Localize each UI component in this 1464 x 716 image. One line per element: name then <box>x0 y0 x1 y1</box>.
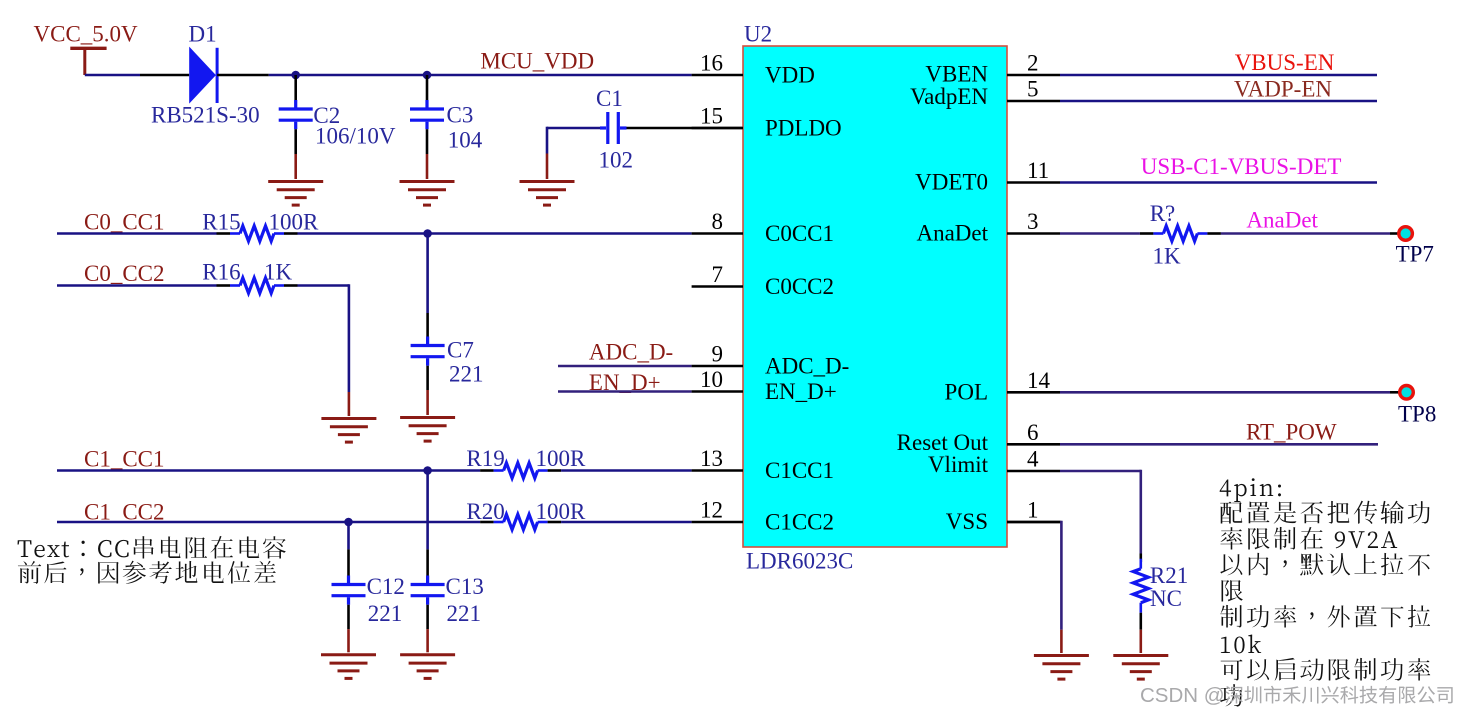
ground C7 <box>400 418 455 442</box>
svg-text:VCC_5.0V: VCC_5.0V <box>34 22 139 47</box>
svg-text:PDLDO: PDLDO <box>765 115 842 140</box>
designator U2 <box>744 22 772 47</box>
pin name AnaDet <box>916 220 988 245</box>
value 1K <box>264 260 293 285</box>
capacitor C7 <box>411 337 445 366</box>
capacitor C13 <box>411 576 445 605</box>
junction C7 tap <box>423 229 432 238</box>
pin name C1CC2 <box>765 509 834 534</box>
pin name C1CC1 <box>765 458 834 483</box>
svg-text:TP8: TP8 <box>1398 402 1436 427</box>
ground C1 <box>520 182 575 206</box>
svg-text:R?: R? <box>1150 201 1176 226</box>
pin 14 stub <box>1007 391 1060 394</box>
svg-text:VBEN: VBEN <box>925 61 988 86</box>
wire C7 to ground <box>426 366 429 415</box>
capacitor C3 <box>410 100 444 129</box>
wire R21 to ground <box>1140 613 1143 653</box>
wire VSS pin 1 to ground <box>1007 521 1061 653</box>
ground C13 <box>400 655 455 679</box>
svg-text:106/10V: 106/10V <box>315 124 396 149</box>
pin number 2 <box>1027 51 1039 76</box>
wire Vlimit pin 4 to R21 <box>1060 470 1141 562</box>
svg-text:R19: R19 <box>466 446 504 471</box>
resistor R21 <box>1133 559 1148 613</box>
pin number 5 <box>1027 77 1039 102</box>
ground R21 <box>1113 656 1168 680</box>
pin name Vlimit <box>928 452 989 477</box>
pin name PDLDO <box>765 115 842 140</box>
ground C12 <box>321 655 376 679</box>
svg-text:1: 1 <box>1027 498 1039 523</box>
ground VSS <box>1034 656 1089 680</box>
svg-text:221: 221 <box>449 362 484 387</box>
svg-text:R16: R16 <box>202 260 240 285</box>
pin 13 stub <box>692 469 743 472</box>
svg-text:100R: 100R <box>536 446 587 471</box>
svg-text:VSS: VSS <box>946 509 988 534</box>
value 100R <box>536 499 587 524</box>
net label VCC_5.0V <box>34 22 139 47</box>
wire C12 to ground <box>347 605 350 653</box>
pin number 16 <box>700 51 723 76</box>
svg-text:C1: C1 <box>596 86 623 111</box>
svg-text:TP7: TP7 <box>1396 242 1434 267</box>
svg-text:R20: R20 <box>466 499 504 524</box>
pin 11 stub <box>1007 181 1060 184</box>
svg-text:C1CC2: C1CC2 <box>765 509 834 534</box>
capacitor C2 <box>279 100 313 129</box>
svg-text:VBUS-EN: VBUS-EN <box>1235 50 1335 75</box>
svg-text:4: 4 <box>1027 447 1039 472</box>
wire C1 to ground corner <box>547 127 600 179</box>
wire POL pin 14 to TP8 <box>1060 391 1399 394</box>
svg-text:POL: POL <box>945 379 988 404</box>
pin 12 stub <box>692 521 743 524</box>
designator C12 <box>367 574 405 599</box>
value 221 <box>449 362 484 387</box>
pin number 6 <box>1027 420 1039 445</box>
wire junction to C7 <box>426 234 429 337</box>
svg-text:11: 11 <box>1027 158 1049 183</box>
net label RT_POW <box>1246 420 1337 445</box>
svg-text:221: 221 <box>368 601 403 626</box>
net label C1_CC2 <box>84 500 165 525</box>
value 106/10V <box>315 124 396 149</box>
value 221 <box>368 601 403 626</box>
wire rail to C2 <box>294 75 297 100</box>
pin number 14 <box>1027 368 1051 393</box>
power symbol VCC_5.0V <box>70 48 106 75</box>
svg-text:RB521S-30: RB521S-30 <box>151 103 260 128</box>
pin name ADC_D- <box>765 353 849 378</box>
svg-text:R21: R21 <box>1150 563 1188 588</box>
pin number 15 <box>700 104 723 129</box>
svg-text:VDET0: VDET0 <box>915 169 988 194</box>
pin name VDET0 <box>915 169 988 194</box>
label TP7 <box>1396 242 1434 267</box>
value 221 <box>447 601 482 626</box>
wire VBUS-EN net <box>1060 74 1377 77</box>
wire C0_CC2 <box>57 284 217 287</box>
capacitor C12 <box>332 576 366 605</box>
designator C7 <box>447 338 474 363</box>
junction C13 tap <box>423 466 432 475</box>
wire AnaDet pin 3 to R? <box>1060 232 1140 235</box>
svg-text:USB-C1-VBUS-DET: USB-C1-VBUS-DET <box>1141 154 1342 179</box>
svg-text:RT_POW: RT_POW <box>1246 420 1337 445</box>
pin name POL <box>945 379 988 404</box>
net label USB-C1-VBUS-DET <box>1141 154 1342 179</box>
designator R20 <box>466 499 504 524</box>
label TP8 <box>1398 402 1436 427</box>
svg-text:ADC_D-: ADC_D- <box>765 353 849 378</box>
value RB521S-30 <box>151 103 260 128</box>
svg-text:VADP-EN: VADP-EN <box>1234 77 1332 102</box>
wire rail to C3 <box>426 75 429 100</box>
value LDR6023C <box>746 549 853 574</box>
wire EN_D+ to pin 10 <box>558 390 692 393</box>
svg-text:EN_D+: EN_D+ <box>765 379 837 404</box>
svg-text:16: 16 <box>700 51 723 76</box>
svg-text:2: 2 <box>1027 51 1039 76</box>
pin number 7 <box>712 262 724 287</box>
pin 1 stub <box>1007 521 1060 524</box>
wire R? to TP7 <box>1221 232 1398 235</box>
ground R16 <box>321 419 376 443</box>
wire D1 cathode to MCU_VDD rail <box>217 74 691 77</box>
op-amp U2 LDR6023C body <box>743 46 1007 547</box>
pin 8 stub <box>692 232 743 235</box>
svg-text:13: 13 <box>700 446 723 471</box>
ground C2 <box>268 182 323 206</box>
svg-text:ADC_D-: ADC_D- <box>589 340 673 365</box>
wire ADC_D- to pin 9 <box>558 365 692 368</box>
pin 15 stub <box>692 127 743 130</box>
wire USB-C1-VBUS-DET net <box>1060 181 1377 184</box>
wire VADP-EN net <box>1060 100 1377 103</box>
svg-text:AnaDet: AnaDet <box>916 220 988 245</box>
value 100R <box>269 210 320 235</box>
svg-text:1K: 1K <box>264 260 293 285</box>
net label AnaDet <box>1246 208 1318 233</box>
pin 2 stub <box>1007 74 1060 77</box>
pin 4 stub <box>1007 470 1060 473</box>
svg-text:C0CC1: C0CC1 <box>765 221 834 246</box>
designator R16 <box>202 260 240 285</box>
resistor R15 <box>217 226 298 241</box>
pin number 11 <box>1027 158 1049 183</box>
resistor R20 <box>480 514 561 529</box>
pin 9 stub <box>692 365 743 368</box>
pin number 8 <box>712 209 724 234</box>
wire junction to C13 <box>426 471 429 576</box>
watermark CSDN <box>1140 680 1455 708</box>
svg-text:C0CC2: C0CC2 <box>765 274 834 299</box>
svg-text:VDD: VDD <box>765 62 815 87</box>
net label MCU_VDD <box>480 49 594 74</box>
wire C1_CC1 <box>57 469 480 472</box>
designator C13 <box>446 574 484 599</box>
designator R15 <box>202 210 240 235</box>
svg-text:100R: 100R <box>536 499 587 524</box>
wire C0_CC1 <box>57 232 217 235</box>
pin 6 stub <box>1007 443 1060 446</box>
net label VBUS-EN <box>1235 50 1335 75</box>
svg-text:AnaDet: AnaDet <box>1246 208 1318 233</box>
wire VCC to D1 anode <box>85 74 189 77</box>
net label EN_D+ <box>589 370 661 395</box>
pin 5 stub <box>1007 100 1060 103</box>
svg-text:5: 5 <box>1027 77 1039 102</box>
svg-text:1K: 1K <box>1153 244 1182 269</box>
pin name Reset Out <box>897 430 989 455</box>
svg-text:Vlimit: Vlimit <box>928 452 989 477</box>
test point TP8 <box>1400 386 1414 400</box>
svg-text:C7: C7 <box>447 338 474 363</box>
value 1K <box>1153 244 1182 269</box>
svg-text:12: 12 <box>700 498 723 523</box>
svg-text:102: 102 <box>599 148 634 173</box>
pin name C0CC1 <box>765 221 834 246</box>
designator C2 <box>313 103 340 128</box>
wire pin15 to C1 <box>627 127 744 130</box>
value 102 <box>599 148 634 173</box>
resistor R? <box>1140 226 1221 241</box>
diode D1 <box>189 47 217 104</box>
svg-text:100R: 100R <box>269 210 320 235</box>
net label VADP-EN <box>1234 77 1332 102</box>
designator D1 <box>189 22 217 47</box>
svg-text:3: 3 <box>1027 209 1039 234</box>
svg-text:6: 6 <box>1027 420 1039 445</box>
junction at C3 <box>423 71 432 80</box>
capacitor C1 <box>600 112 627 144</box>
designator C3 <box>447 103 474 128</box>
svg-text:14: 14 <box>1027 368 1051 393</box>
svg-text:VadpEN: VadpEN <box>910 84 988 109</box>
wire R20 to pin 12 <box>561 521 692 524</box>
note text CC resistor annotation <box>17 535 288 586</box>
pin 10 stub <box>692 390 743 393</box>
pin number 1 <box>1027 498 1039 523</box>
junction at C2 <box>291 71 300 80</box>
resistor R16 <box>217 278 298 293</box>
wire junction to C12 <box>347 522 350 576</box>
svg-text:7: 7 <box>712 262 724 287</box>
pin name VBEN <box>925 61 988 86</box>
svg-text:C1_CC1: C1_CC1 <box>84 447 165 472</box>
pin 7 stub <box>692 285 743 288</box>
net label ADC_D- <box>589 340 673 365</box>
svg-text:C12: C12 <box>367 574 405 599</box>
svg-text:C0_CC2: C0_CC2 <box>84 261 165 286</box>
test point TP7 <box>1399 227 1413 241</box>
pin name EN_D+ <box>765 379 837 404</box>
pin number 9 <box>712 342 724 367</box>
net label C1_CC1 <box>84 447 165 472</box>
value 104 <box>448 128 483 153</box>
note text 4pin annotation <box>1219 474 1433 709</box>
net label C0_CC1 <box>84 210 165 235</box>
designator C1 <box>596 86 623 111</box>
svg-text:221: 221 <box>447 601 482 626</box>
pin name VDD <box>765 62 815 87</box>
wire C2 to ground <box>294 129 297 179</box>
wire RT_POW pin 6 <box>1060 443 1378 446</box>
pin number 10 <box>700 367 723 392</box>
ground C3 <box>400 182 455 206</box>
svg-text:9: 9 <box>712 342 724 367</box>
pin 3 stub <box>1007 232 1060 235</box>
wire C13 to ground <box>426 605 429 653</box>
junction C12 tap <box>344 518 353 527</box>
pin name VSS <box>946 509 988 534</box>
wire R16 to ground corner <box>298 284 349 416</box>
pin name VadpEN <box>910 84 988 109</box>
wire R15 to pin 8 <box>298 232 692 235</box>
svg-text:15: 15 <box>700 104 723 129</box>
wire C1_CC2 <box>57 521 480 524</box>
svg-text:8: 8 <box>712 209 724 234</box>
designator R? <box>1150 201 1176 226</box>
value 100R <box>536 446 587 471</box>
pin number 13 <box>700 446 723 471</box>
svg-text:104: 104 <box>448 128 483 153</box>
svg-text:NC: NC <box>1150 586 1182 611</box>
designator R19 <box>466 446 504 471</box>
svg-text:D1: D1 <box>189 22 217 47</box>
svg-text:U2: U2 <box>744 22 772 47</box>
resistor R19 <box>480 463 561 478</box>
value NC <box>1150 586 1182 611</box>
pin number 4 <box>1027 447 1039 472</box>
net label C0_CC2 <box>84 261 165 286</box>
svg-text:C3: C3 <box>447 103 474 128</box>
designator R21 <box>1150 563 1188 588</box>
wire R19 to pin 13 <box>561 469 692 472</box>
pin number 3 <box>1027 209 1039 234</box>
wire C3 to ground <box>426 129 429 179</box>
pin number 12 <box>700 498 723 523</box>
svg-text:10: 10 <box>700 367 723 392</box>
svg-text:C0_CC1: C0_CC1 <box>84 210 165 235</box>
svg-text:R15: R15 <box>202 210 240 235</box>
svg-text:C13: C13 <box>446 574 484 599</box>
pin name C0CC2 <box>765 274 834 299</box>
svg-text:LDR6023C: LDR6023C <box>746 549 853 574</box>
svg-text:C1CC1: C1CC1 <box>765 458 834 483</box>
pin 16 stub <box>692 74 743 77</box>
svg-text:MCU_VDD: MCU_VDD <box>480 49 594 74</box>
